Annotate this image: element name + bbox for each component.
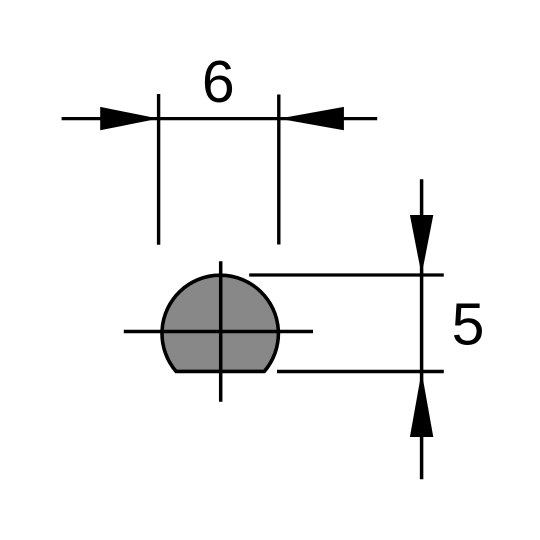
extension line right (width dim) [277,95,280,245]
dimension line for 5 [420,179,424,479]
svg-text:6: 6 [202,49,235,115]
extension line top (height dim) [249,273,444,276]
svg-text:5: 5 [452,292,485,358]
arrowhead right pointing left [279,107,344,130]
extension line left (width dim) [157,94,160,245]
profile body (circle with flat bottom), gray fill [162,275,278,371]
dimension line for 6 [62,117,378,120]
extension line bottom (height dim) [277,370,444,373]
arrowhead left pointing right [100,107,158,130]
horizontal centerline [124,330,313,333]
arrowhead bottom pointing up [410,372,433,438]
arrowhead top pointing down [410,215,433,275]
vertical centerline [219,261,223,402]
